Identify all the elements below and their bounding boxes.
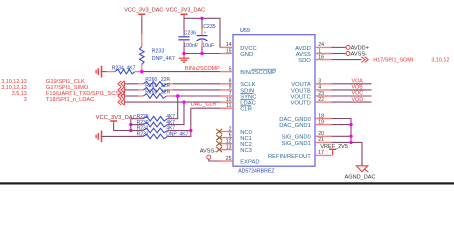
svg-text:7: 7 (229, 91, 232, 97)
svg-text:R261: R261 (145, 83, 157, 89)
svg-text:AD5724RBREZ: AD5724RBREZ (238, 169, 274, 175)
power symbol bar (left) (138, 13, 145, 15)
svg-text:GND: GND (240, 52, 253, 58)
off-page connector (BIN/2SCOMP input) (101, 66, 103, 78)
wire R229 to SYNC (167, 96, 177, 119)
svg-text:T18/SPI1_n_LDAC: T18/SPI1_n_LDAC (46, 97, 94, 103)
wire VOC (332, 95, 372, 97)
svg-text:10: 10 (226, 97, 232, 103)
svg-text:3: 3 (24, 97, 27, 103)
svg-text:19: 19 (318, 119, 324, 125)
pin 2 stub (219, 131, 233, 133)
svg-text:AVSS-: AVSS- (351, 52, 368, 58)
svg-text:8: 8 (229, 79, 232, 85)
svg-text:G19/SPI1_CLK: G19/SPI1_CLK (46, 79, 85, 85)
wire DAC_GND0 (332, 119, 352, 143)
wire VOB (332, 89, 372, 91)
wire F19/UART1_TXD/SPI1_SCSn2 resistor to pin (167, 95, 174, 97)
wire AVSS to pin 25 (209, 159, 220, 161)
svg-text:VOA: VOA (352, 79, 364, 85)
svg-text:2: 2 (229, 126, 232, 132)
svg-text:23: 23 (318, 91, 324, 97)
svg-text:U59: U59 (240, 28, 250, 34)
svg-text:17: 17 (318, 150, 324, 156)
svg-text:SDO: SDO (298, 58, 311, 64)
svg-text:VCC_3V3_DAC: VCC_3V3_DAC (124, 7, 163, 13)
resistor R233 (140, 47, 145, 65)
svg-text:5: 5 (229, 66, 232, 72)
svg-text:BINn2SCOMP: BINn2SCOMP (185, 66, 220, 72)
power symbol circle AVSS- (207, 155, 211, 159)
svg-text:F19/UART1_TXD/SPI1_SCSn2: F19/UART1_TXD/SPI1_SCSn2 (46, 91, 126, 97)
svg-text:DAC_CLR: DAC_CLR (191, 101, 217, 107)
svg-text:AVDD: AVDD (295, 46, 311, 52)
off-page connector (DAC_CLR input) (101, 131, 103, 143)
pin 13 stub (219, 149, 233, 151)
svg-text:SIG_GND0: SIG_GND0 (281, 135, 310, 141)
node bus row2 (129, 123, 132, 126)
svg-text:22R: 22R (161, 89, 171, 95)
resistor R229 4K7 (143, 116, 167, 121)
svg-text:VOD: VOD (352, 97, 364, 103)
wire pin 24 to AVDD+ (332, 46, 346, 48)
pin 8 stub (220, 83, 233, 85)
pin 21 stub (315, 141, 332, 143)
wire G17/SPI1_SIMO to resistor (124, 89, 138, 91)
svg-text:21: 21 (318, 137, 324, 143)
svg-text:15: 15 (226, 48, 232, 54)
power symbol bar VREF_2V5 (329, 148, 336, 150)
wire G19/SPI1_CLK to resistor (124, 83, 138, 85)
resistor R231 4K7 (143, 128, 167, 133)
wire GND rail to pin 15 (184, 53, 220, 55)
resistor R234 4K7 (115, 69, 135, 74)
no-connect X (216, 147, 222, 152)
svg-text:AVSS: AVSS (296, 52, 311, 58)
power symbol circle AVDD+ (346, 45, 350, 49)
svg-text:H17/SPI1_SOMI: H17/SPI1_SOMI (373, 58, 413, 64)
svg-text:VCC_3V3_DAC: VCC_3V3_DAC (166, 7, 205, 13)
pin 5 stub (220, 71, 233, 73)
node cap C235 bottom (200, 52, 203, 55)
node R231/R232 join (189, 129, 192, 132)
resistor R261 22R (143, 88, 166, 93)
svg-text:+: + (204, 30, 207, 35)
svg-text:16: 16 (318, 54, 324, 60)
pin 15 stub (220, 53, 233, 55)
pin 14 stub (220, 46, 233, 48)
power symbol bar (right) (181, 13, 188, 15)
svg-text:18: 18 (318, 113, 324, 119)
svg-text:10uF: 10uF (202, 43, 214, 49)
wire VOD (332, 101, 372, 103)
resistor R230 4K7 (143, 122, 167, 127)
wire R232 up join (167, 131, 190, 137)
pin 22 stub (315, 101, 332, 103)
sheet border line (0, 182, 454, 184)
off-page connector F19/UART1_TXD/SPI1_SCSn2 (118, 93, 124, 99)
svg-text:DVCC: DVCC (240, 46, 256, 52)
node R233 bottom junction (140, 70, 143, 73)
svg-text:14: 14 (226, 42, 232, 48)
node cap C236 bottom (182, 52, 185, 55)
wire BIN row right to pin 5 (135, 71, 141, 73)
svg-text:25: 25 (226, 156, 232, 162)
node bus row3 (129, 129, 132, 132)
svg-text:VOUTD: VOUTD (291, 101, 311, 107)
wire SIG_GND1 to ground (332, 142, 363, 165)
pin 6 stub (219, 137, 233, 139)
svg-text:VOUTA: VOUTA (291, 82, 311, 88)
svg-text:R262: R262 (145, 89, 157, 95)
svg-text:3: 3 (318, 79, 321, 85)
off-page connector G19/SPI1_CLK (118, 81, 124, 87)
pin 20 stub (315, 135, 332, 137)
svg-text:DAC_GND0: DAC_GND0 (279, 117, 311, 123)
wire G19/SPI1_CLK resistor to pin (167, 83, 174, 85)
wire G17/SPI1_SIMO resistor to pin (167, 89, 174, 91)
pin 24 stub (315, 46, 332, 48)
svg-text:11: 11 (226, 103, 231, 109)
wire T18/SPI1_n_LDAC to pin (124, 101, 220, 103)
resistor R262 22R (143, 94, 166, 99)
svg-text:R260: R260 (145, 77, 157, 83)
svg-text:3,5,13: 3,5,13 (12, 91, 27, 97)
svg-text:24: 24 (318, 42, 324, 48)
wire VCC feed to pullup bus (114, 125, 131, 131)
svg-text:1: 1 (318, 48, 321, 54)
svg-text:C235: C235 (203, 24, 216, 30)
off-page connector G17/SPI1_SIMO (118, 87, 124, 93)
svg-text:AVSS-: AVSS- (200, 148, 217, 154)
no-connect X (216, 141, 222, 146)
svg-text:NC3: NC3 (240, 148, 252, 154)
pin 23 stub (315, 95, 332, 97)
svg-text:20: 20 (318, 131, 324, 137)
pin 1 stub (315, 53, 332, 55)
svg-text:VOUTC: VOUTC (291, 94, 311, 100)
svg-text:CLR: CLR (240, 107, 252, 113)
svg-text:4: 4 (318, 85, 321, 91)
wire R233 top lead from power (141, 18, 143, 34)
svg-text:BIN/2SCOMP: BIN/2SCOMP (240, 70, 276, 76)
svg-text:EXPAD: EXPAD (240, 159, 259, 165)
svg-text:DNP_4K7: DNP_4K7 (152, 56, 175, 62)
pin 10 stub (220, 101, 233, 103)
pin 7 stub (220, 95, 233, 97)
pin 3 stub (315, 83, 332, 85)
capacitor C236 (183, 18, 185, 30)
pin 25 stub (220, 160, 233, 162)
wire VCC top rail to C235 and pin 14 (184, 18, 220, 47)
svg-text:22: 22 (318, 97, 324, 103)
svg-text:SIG_GND1: SIG_GND1 (281, 141, 310, 147)
pin 11 stub (220, 107, 233, 109)
svg-text:SCLK: SCLK (240, 82, 255, 88)
wire bus to R231 (131, 130, 144, 132)
off-page connector T18/SPI1_n_LDAC (118, 99, 124, 105)
svg-text:22R: 22R (161, 83, 171, 89)
pin 18 stub (315, 118, 332, 120)
svg-text:100nF: 100nF (183, 43, 198, 49)
svg-text:G17/SPI1_SIMO: G17/SPI1_SIMO (46, 85, 89, 91)
svg-text:13: 13 (226, 144, 232, 150)
resistor R232 DNP_4K7 (143, 134, 167, 139)
power symbol circle AVSS- (346, 52, 350, 56)
wire BIN row left (102, 71, 107, 73)
svg-text:VOB: VOB (352, 85, 364, 91)
svg-text:22R: 22R (161, 77, 171, 83)
wire bus to R230 (131, 124, 144, 126)
wire bus to R229 (131, 118, 144, 120)
wire R233 bottom lead (141, 64, 143, 71)
svg-text:R233: R233 (152, 49, 165, 55)
pin 9 stub (220, 89, 233, 91)
svg-text:DAC_GND1: DAC_GND1 (279, 123, 311, 129)
wire R231 to CLR (167, 108, 190, 130)
svg-text:AGND_DAC: AGND_DAC (345, 175, 376, 181)
svg-text:R234 4K7: R234 4K7 (112, 66, 136, 72)
wire DAC_GND1 (332, 124, 352, 126)
power symbol bar (pullups) (110, 120, 117, 122)
capacitor C235 (polarized) (201, 18, 203, 28)
pin 12 stub (219, 143, 233, 145)
svg-text:VOC: VOC (352, 91, 364, 97)
node C235 top junction (200, 17, 203, 20)
wire pullup bus vertical (130, 119, 132, 131)
wire pin 16 SDO (332, 59, 362, 61)
ground under decoupling caps (183, 54, 185, 58)
svg-text:VOUTB: VOUTB (291, 88, 311, 94)
pin 16 stub (315, 59, 332, 61)
wire SIG_GND0 (332, 135, 352, 137)
resistor R260 22R (143, 82, 166, 87)
svg-text:3,10,12,13: 3,10,12,13 (1, 79, 26, 85)
ground AGND_DAC triangle (356, 166, 367, 172)
svg-text:C236: C236 (184, 30, 197, 36)
no-connect X (216, 129, 222, 134)
pin 17 stub (315, 154, 332, 156)
op-amp U59 (DAC AD5724RBREZ) body (233, 35, 315, 167)
svg-text:3,10,12: 3,10,12 (431, 58, 449, 64)
wire pin 1 to AVSS- (332, 53, 346, 55)
off-page connector SDO output (362, 57, 369, 63)
svg-text:REFIN/REFOUT: REFIN/REFOUT (268, 154, 311, 160)
svg-text:9: 9 (229, 85, 232, 91)
wire F19/UART1_TXD/SPI1_SCSn2 to resistor (124, 95, 138, 97)
wire off-page to R232 (102, 135, 144, 137)
wire VOA (332, 83, 372, 85)
wire R230 to LDAC (167, 102, 184, 125)
pin 19 stub (315, 124, 332, 126)
svg-text:3,10,12,13: 3,10,12,13 (1, 85, 26, 91)
wire CLR row to pin 11 (191, 107, 220, 109)
no-connect X (216, 135, 222, 140)
svg-text:NC0: NC0 (240, 130, 252, 136)
svg-text:AVDD+: AVDD+ (351, 45, 369, 51)
pin 4 stub (315, 89, 332, 91)
